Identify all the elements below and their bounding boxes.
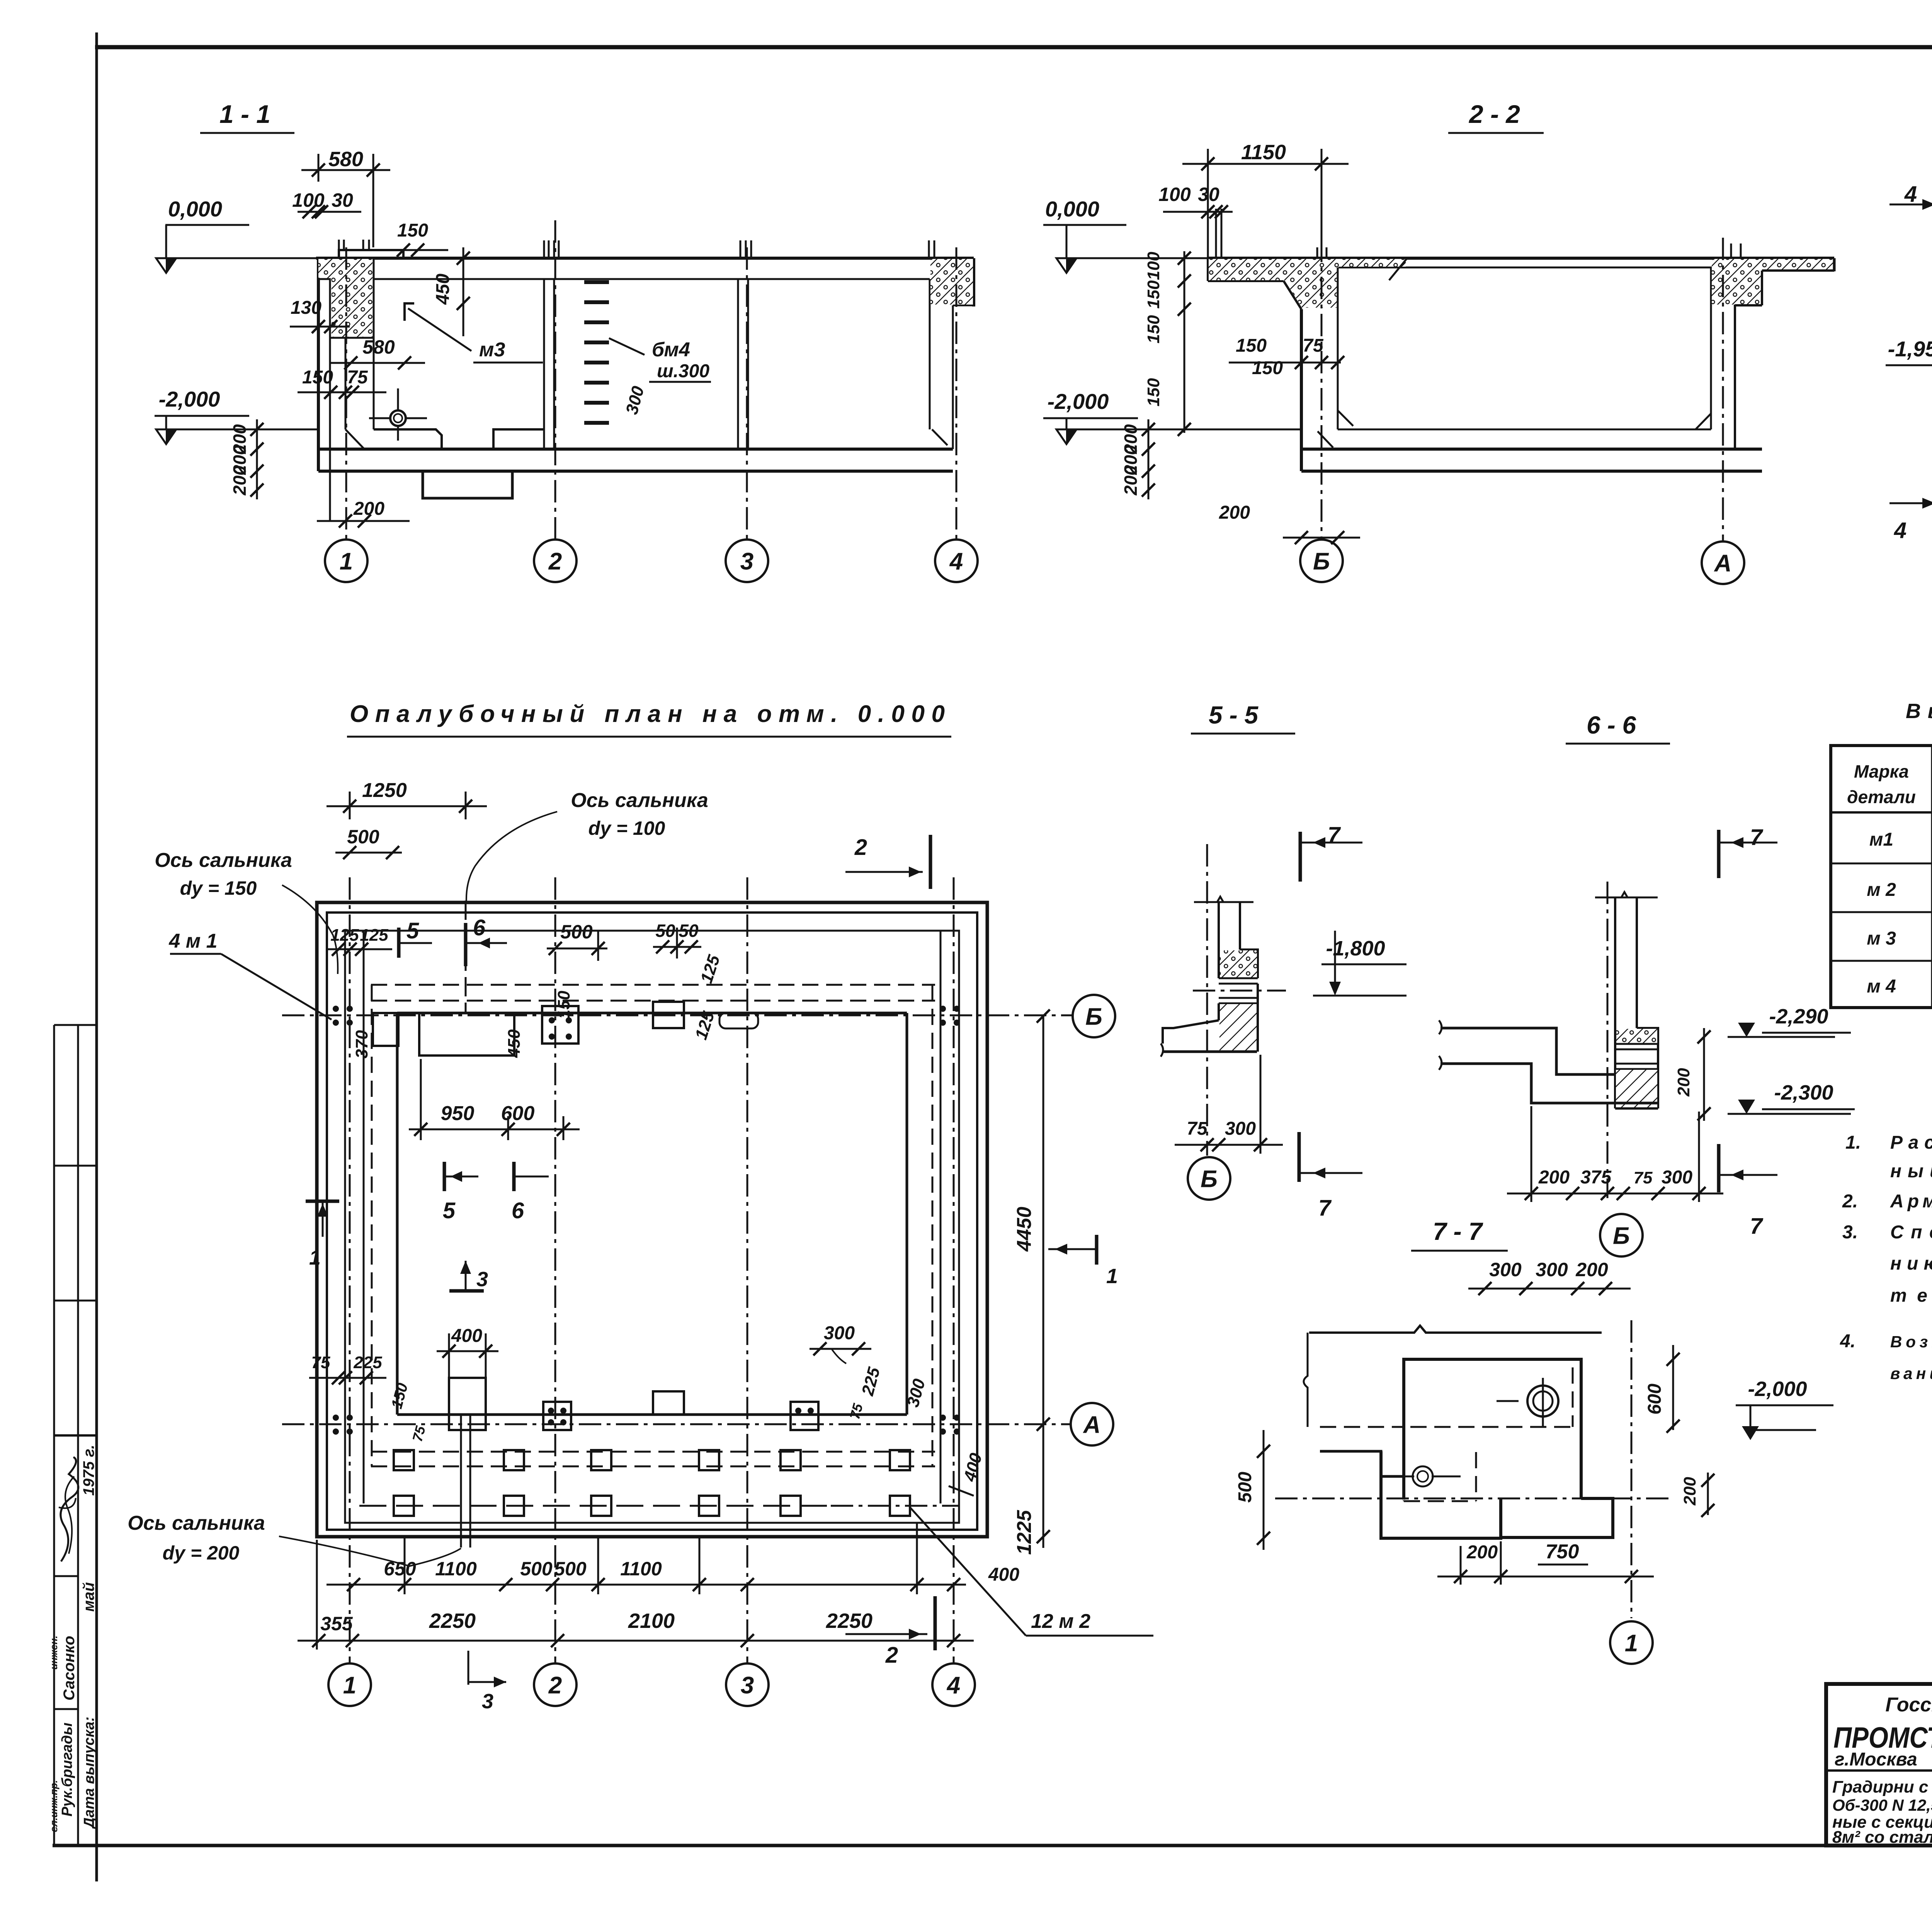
svg-text:6: 6: [512, 1198, 524, 1223]
plan wall inner top face: [397, 1012, 907, 1015]
section 6-6 upper hatch: [1616, 1029, 1657, 1044]
svg-text:355: 355: [320, 1613, 353, 1634]
svg-text:Об-300 N 12,5 пленочные и ка: Об-300 N 12,5 пленочные и капель: [1832, 1796, 1932, 1814]
section 1-1 joint at axis 2: [543, 279, 545, 449]
svg-text:150: 150: [1144, 378, 1163, 407]
svg-text:200: 200: [1219, 502, 1250, 523]
svg-text:950: 950: [441, 1102, 474, 1125]
section 7-7 level dashdot: [1275, 1498, 1673, 1500]
svg-text:750: 750: [1546, 1541, 1579, 1563]
plan axis circle Б: [1073, 995, 1115, 1037]
axis line 4 sec1: [956, 247, 957, 540]
svg-text:3: 3: [741, 1672, 754, 1699]
svg-text:бм4: бм4: [652, 339, 690, 361]
section 6-6 axis: [1607, 882, 1609, 1198]
svg-text:0,000: 0,000: [1045, 197, 1099, 221]
section 2-2 corbel: [1284, 281, 1301, 309]
section 1-1 top curb: [339, 250, 403, 258]
svg-text:Б: Б: [1085, 1003, 1102, 1030]
axis circle Б sec5: [1188, 1157, 1230, 1200]
svg-text:200: 200: [1674, 1068, 1693, 1097]
svg-text:м 4: м 4: [1867, 976, 1896, 997]
svg-text:Марка: Марка: [1854, 761, 1909, 781]
label бм4 ш.300: [609, 338, 645, 355]
section 6-6 plate lines: [1615, 1043, 1658, 1045]
section 2-2 tail end: [1833, 258, 1836, 271]
svg-text:3: 3: [740, 548, 753, 575]
svg-text:гл.инж.пр.: гл.инж.пр.: [48, 1780, 60, 1832]
svg-text:500: 500: [1235, 1472, 1255, 1503]
section 5-5 wall top: [1194, 901, 1253, 903]
plan axis circle 3: [726, 1663, 769, 1706]
plan embedded squares row2: [394, 1496, 414, 1516]
svg-text:ш.300: ш.300: [657, 361, 709, 381]
axis Б line sec2: [1321, 240, 1323, 540]
svg-text:150: 150: [1144, 315, 1163, 344]
svg-text:75: 75: [1187, 1119, 1208, 1139]
section 2-2 slab lines: [1338, 267, 1834, 269]
section 2-2 right wall: [1710, 267, 1712, 429]
svg-text:75: 75: [347, 367, 368, 388]
plan corner dots: [333, 1006, 339, 1012]
left stamp table: [53, 1025, 55, 1845]
svg-text:100: 100: [1158, 184, 1191, 205]
svg-text:200: 200: [1121, 465, 1141, 495]
section 1-1 floor pads: [374, 429, 442, 449]
svg-text:1250: 1250: [362, 779, 407, 802]
svg-text:м 2: м 2: [1867, 880, 1896, 900]
plan dim chain 1: [327, 1584, 966, 1586]
svg-text:1 - 1: 1 - 1: [219, 100, 270, 128]
section 7-7 right step: [1501, 1498, 1613, 1537]
section 7-7 lower dashed: [1403, 1476, 1405, 1501]
svg-text:2: 2: [548, 548, 562, 575]
plan axis 3 vertical: [747, 877, 748, 1663]
svg-text:вания , т.е. без перерыва.: вания , т.е. без перерыва.: [1890, 1364, 1932, 1382]
svg-text:130: 130: [291, 298, 321, 318]
svg-text:-2,000: -2,000: [1048, 389, 1109, 414]
axis Б circle sec2: [1300, 540, 1343, 582]
svg-text:-2,000: -2,000: [1748, 1377, 1807, 1401]
plan pilaster bottom 400: [449, 1378, 486, 1430]
svg-text:май: май: [80, 1582, 97, 1612]
svg-text:150: 150: [554, 991, 573, 1019]
svg-text:6: 6: [473, 915, 486, 940]
plan wall outer rect: [345, 931, 959, 1523]
section 5-5 axis: [1206, 844, 1208, 1156]
svg-text:150: 150: [1144, 280, 1163, 309]
svg-text:Армирование см. на листах: Армирование см. на листах АС-5 и АС-6.: [1890, 1191, 1932, 1212]
section 1-1 drain circle: [390, 410, 406, 426]
plan slot plate top: [719, 1013, 758, 1028]
svg-text:Выборка закладных детале: Выборка закладных деталей на бассейн: [1906, 700, 1932, 723]
svg-text:4: 4: [1894, 518, 1906, 543]
svg-text:7: 7: [1328, 822, 1341, 848]
svg-text:370: 370: [352, 1030, 371, 1059]
sheet border frame: [95, 32, 98, 1881]
svg-text:2: 2: [854, 835, 867, 860]
svg-text:150: 150: [397, 220, 428, 241]
section 7-7 axis1 dashdot: [1631, 1320, 1633, 1618]
svg-text:1: 1: [340, 548, 353, 575]
svg-text:dу = 200: dу = 200: [163, 1542, 240, 1564]
svg-text:6 - 6: 6 - 6: [1587, 711, 1636, 739]
section 7-7 circle small: [1413, 1466, 1433, 1486]
plan axis circle 1: [328, 1663, 371, 1706]
plan pilaster top mid: [653, 1002, 684, 1028]
svg-text:А: А: [1714, 550, 1732, 577]
svg-text:30: 30: [1198, 184, 1219, 205]
svg-text:650: 650: [384, 1558, 416, 1580]
svg-text:4: 4: [1904, 182, 1917, 207]
section 5-5 plate lines2: [1219, 997, 1258, 999]
svg-text:300: 300: [1662, 1167, 1692, 1188]
svg-text:1100: 1100: [620, 1558, 662, 1580]
svg-text:детали: детали: [1847, 787, 1916, 807]
svg-text:Ось сальника: Ось сальника: [155, 849, 292, 872]
plan wall inner left face: [396, 1013, 399, 1415]
svg-text:нию водосборного бассейна с: нию водосборного бассейна см. в разделе …: [1890, 1253, 1932, 1274]
svg-text:125: 125: [360, 926, 388, 945]
section 2-2 top slab: [1208, 257, 1834, 260]
title block outline: [1826, 1684, 1932, 1845]
svg-text:1975 г.: 1975 г.: [80, 1445, 97, 1496]
plan axis 2 vertical: [554, 877, 556, 1663]
plan axis circle А: [1071, 1403, 1113, 1445]
section 2-2 sleeve pipe: [1215, 209, 1217, 281]
svg-text:50: 50: [655, 921, 675, 941]
svg-text:г.Москва: г.Москва: [1835, 1749, 1917, 1770]
axis circle 3 sec1: [726, 540, 768, 582]
section 6-6 left floor lower: [1440, 1064, 1658, 1103]
svg-text:4 м 1: 4 м 1: [168, 930, 217, 952]
plan axis 4 vertical: [953, 877, 955, 1663]
axis line 3 sec1: [746, 247, 748, 540]
stamp signature: [61, 1457, 78, 1561]
plan axis А horizontal: [282, 1423, 1071, 1425]
section 7-7 dashed inner: [1410, 1426, 1573, 1428]
axis circle Б sec6: [1600, 1214, 1643, 1256]
svg-text:50: 50: [679, 921, 699, 941]
title block col1 line: [1826, 1769, 1932, 1772]
svg-text:2: 2: [885, 1643, 898, 1668]
section 5-5 wall verticals: [1218, 902, 1220, 950]
section 2-2 left slab end: [1207, 258, 1209, 281]
section 2-2 right hatch: [1712, 259, 1833, 305]
svg-text:Госстрой , СССР: Госстрой , СССР: [1885, 1694, 1932, 1716]
section 5-5 diagonal: [1163, 1020, 1219, 1028]
svg-text:225: 225: [353, 1353, 382, 1372]
plan axis 1 vertical: [349, 877, 351, 1663]
svg-text:dу = 150: dу = 150: [180, 877, 257, 899]
svg-text:8м² со стальным каркасом: 8м² со стальным каркасом: [1832, 1828, 1932, 1847]
section 1-1 left wall inner lines: [329, 258, 331, 521]
plan plate bottom2: [791, 1402, 818, 1430]
section 7-7 step left: [1320, 1451, 1404, 1476]
svg-text:1: 1: [1625, 1630, 1638, 1657]
svg-text:75: 75: [311, 1353, 330, 1372]
svg-text:1: 1: [1106, 1265, 1118, 1288]
section 6-6 lower hatch: [1616, 1070, 1657, 1108]
section 1-1 top slab line: [316, 257, 974, 260]
axis А line sec2: [1722, 238, 1724, 541]
plan big recess box: [419, 1013, 514, 1056]
svg-text:12 м 2: 12 м 2: [1031, 1610, 1090, 1633]
svg-text:Сасонко: Сасонко: [61, 1636, 78, 1701]
svg-text:75: 75: [1634, 1168, 1653, 1187]
svg-text:2.: 2.: [1842, 1191, 1858, 1212]
plan dim chain 2: [298, 1640, 974, 1642]
plan hidden dash rect upper: [371, 984, 935, 986]
svg-text:4: 4: [946, 1672, 960, 1699]
plan outer rect: [317, 902, 987, 1537]
svg-text:400: 400: [988, 1565, 1019, 1585]
svg-text:1: 1: [309, 1246, 321, 1269]
plan embedded squares row1: [394, 1450, 414, 1470]
svg-text:7 - 7: 7 - 7: [1433, 1217, 1483, 1245]
svg-text:375: 375: [1580, 1167, 1612, 1188]
plan outer rect 2: [327, 913, 977, 1530]
plan axis Б horizontal: [282, 1015, 1073, 1016]
svg-text:Б: Б: [1201, 1166, 1218, 1192]
plan squares row lines: [359, 1505, 831, 1507]
section 5-5 step: [1240, 950, 1258, 978]
svg-text:580: 580: [362, 336, 395, 358]
section 5-5 upper hatch: [1219, 950, 1257, 977]
section 1-1 left wall outer: [317, 258, 320, 471]
section 1-1 rebar pins: [338, 240, 340, 250]
svg-text:7: 7: [1318, 1195, 1332, 1221]
plan band vertical right: [940, 931, 942, 1503]
svg-text:150: 150: [302, 367, 333, 388]
svg-text:Дата выпуска:: Дата выпуска:: [81, 1717, 97, 1829]
plan pilaster small near axis1: [373, 1013, 398, 1046]
plan wall inner right face: [906, 1013, 908, 1415]
section 6-6 break mark: [1439, 1020, 1442, 1034]
svg-text:100: 100: [1144, 252, 1163, 280]
cut flag 1 left: [306, 1200, 339, 1203]
svg-text:600: 600: [501, 1102, 535, 1125]
svg-text:Расход материалов и выборку: Расход материалов и выборку стали на вод…: [1890, 1132, 1932, 1153]
svg-text:Рук.бригады: Рук.бригады: [59, 1723, 75, 1817]
svg-text:-2,000: -2,000: [159, 387, 220, 411]
svg-text:5: 5: [406, 918, 419, 943]
svg-text:5: 5: [443, 1198, 456, 1223]
svg-text:300: 300: [1489, 1259, 1522, 1280]
section 7-7 circle big: [1527, 1386, 1558, 1416]
section 1-1 right wall hatch: [930, 259, 973, 305]
axis circle 1 sec1: [325, 540, 367, 582]
section 6-6 wall verticals: [1614, 897, 1616, 1028]
svg-text:м 3: м 3: [1867, 928, 1896, 949]
svg-text:1100: 1100: [435, 1558, 477, 1580]
svg-text:dу = 100: dу = 100: [588, 817, 665, 839]
section 5-5 lower hatch: [1219, 1004, 1257, 1051]
svg-text:200: 200: [230, 465, 250, 495]
svg-text:300: 300: [1536, 1259, 1568, 1280]
svg-text:500: 500: [520, 1558, 553, 1580]
svg-text:инжен.: инжен.: [48, 1636, 60, 1670]
svg-text:3: 3: [482, 1690, 493, 1713]
section 2-2 slab hatch: [1209, 259, 1406, 308]
section 6-6 left floor upper: [1440, 1028, 1615, 1074]
svg-text:600: 600: [1645, 1384, 1665, 1415]
axis line 2 sec1: [554, 220, 556, 540]
section 5-5 level line: [1193, 990, 1286, 992]
svg-text:150: 150: [1252, 358, 1283, 378]
section 1-1 left wall hatch: [318, 259, 372, 337]
svg-text:-1,950: -1,950: [1888, 337, 1932, 361]
svg-text:150: 150: [1236, 335, 1267, 356]
plan band vertical left: [363, 931, 365, 1503]
section 7-7 lower block: [1381, 1451, 1501, 1538]
svg-text:580: 580: [328, 148, 363, 171]
svg-text:1225: 1225: [1013, 1510, 1036, 1555]
section 7-7 upper square: [1404, 1359, 1581, 1500]
svg-text:4: 4: [949, 548, 963, 575]
svg-text:м3: м3: [479, 339, 505, 361]
svg-text:7: 7: [1750, 825, 1764, 850]
section 6-6 step: [1637, 1028, 1658, 1108]
svg-text:2: 2: [548, 1672, 562, 1699]
section 1-1 ladder dashes бм4: [584, 280, 609, 284]
section 2-2 left wall: [1300, 309, 1303, 471]
axis line 1 sec1: [345, 247, 347, 540]
axis А circle sec2: [1702, 541, 1744, 584]
svg-text:1150: 1150: [1241, 141, 1286, 164]
section 6-6 bottom: [1615, 1107, 1658, 1110]
svg-text:Ось сальника: Ось сальника: [571, 789, 708, 812]
axis circle 2 sec1: [534, 540, 577, 582]
svg-text:500: 500: [554, 1558, 587, 1580]
plan axis circle 2: [534, 1663, 577, 1706]
svg-text:Ось сальника: Ось сальника: [128, 1512, 265, 1534]
cut flag 1 right: [1048, 1248, 1097, 1250]
svg-text:300: 300: [1225, 1119, 1256, 1139]
section 1-1 slab soffit line: [374, 278, 930, 280]
svg-text:7: 7: [1750, 1214, 1764, 1239]
axis circle 4 sec1: [935, 540, 978, 582]
svg-text:4.: 4.: [1840, 1331, 1855, 1352]
section 5-5 plate lines: [1219, 977, 1258, 979]
svg-text:2100: 2100: [628, 1609, 675, 1633]
svg-text:2 - 2: 2 - 2: [1468, 100, 1520, 128]
label м3: [405, 303, 414, 321]
section 2-2 floor: [1338, 429, 1711, 431]
svg-text:450: 450: [433, 274, 453, 305]
svg-text:м1: м1: [1869, 829, 1893, 850]
section 2-2 wall chamfer: [1338, 410, 1353, 426]
svg-text:200: 200: [1575, 1259, 1608, 1280]
svg-text:125: 125: [330, 926, 359, 945]
section 7-7 top line: [1309, 1326, 1602, 1333]
svg-text:-2,290: -2,290: [1769, 1005, 1828, 1028]
svg-text:3: 3: [476, 1268, 488, 1291]
svg-text:Возведение бассейна выполнят: Возведение бассейна выполнять без рабочи…: [1890, 1333, 1932, 1351]
section 1-1 right wall: [929, 279, 931, 429]
plan du100 axis vertical: [465, 901, 467, 1013]
plan plate bottom: [543, 1402, 571, 1430]
section 6-6 wall top: [1595, 897, 1658, 899]
section 1-1 floor lines: [318, 448, 953, 451]
svg-text:30: 30: [332, 189, 353, 211]
section 5-5 left floor: [1163, 1028, 1173, 1044]
svg-text:3.: 3.: [1842, 1222, 1858, 1243]
svg-text:300: 300: [824, 1323, 855, 1343]
plan axis circle 4: [932, 1663, 975, 1706]
section 1-1 floor chamfer: [345, 429, 364, 449]
svg-text:200: 200: [1538, 1167, 1570, 1188]
svg-text:2250: 2250: [826, 1609, 872, 1633]
svg-text:А: А: [1083, 1411, 1101, 1438]
plan pilaster bottom mid: [653, 1391, 684, 1415]
svg-text:Б: Б: [1313, 548, 1330, 575]
section 1-1 foundation block: [423, 471, 512, 498]
section 7-7 left break: [1304, 1333, 1308, 1427]
svg-text:500: 500: [347, 826, 379, 848]
section 1-1 joint at axis 3: [737, 279, 739, 449]
plan wall inner bottom face: [397, 1413, 907, 1416]
svg-text:400: 400: [451, 1326, 482, 1346]
section 7-7 left dash: [1320, 1426, 1404, 1428]
plan du200 pipe lines: [460, 1415, 462, 1548]
svg-text:450: 450: [505, 1029, 524, 1058]
svg-text:100: 100: [292, 189, 325, 211]
svg-text:500: 500: [560, 921, 593, 943]
svg-text:1.: 1.: [1845, 1132, 1861, 1153]
svg-text:1: 1: [343, 1672, 356, 1699]
plan plate with dots top: [542, 1006, 578, 1044]
svg-text:4450: 4450: [1013, 1207, 1036, 1252]
svg-text:200: 200: [1680, 1477, 1699, 1506]
svg-text:Градирни с вентиляторами: Градирни с вентиляторами: [1832, 1777, 1932, 1796]
svg-text:Б: Б: [1613, 1222, 1630, 1249]
table left half grid: [1831, 746, 1932, 1008]
axis circle 1 sec7: [1610, 1621, 1653, 1664]
svg-text:2250: 2250: [429, 1609, 476, 1633]
section 2-2 pins: [1316, 247, 1318, 258]
svg-text:0,000: 0,000: [168, 197, 222, 221]
svg-text:5 - 5: 5 - 5: [1209, 701, 1259, 729]
svg-text:200: 200: [1466, 1542, 1498, 1563]
svg-text:-2,300: -2,300: [1774, 1081, 1833, 1104]
